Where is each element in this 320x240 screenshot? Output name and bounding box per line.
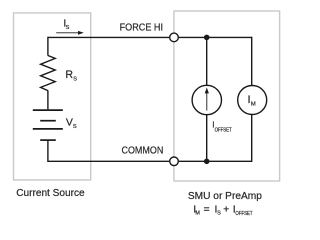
- wire: I_M branch top: [251, 37, 253, 86]
- battery V_S plate 1 (long): [33, 109, 63, 111]
- svg-text:S: S: [217, 211, 221, 217]
- svg-text:M: M: [195, 210, 200, 216]
- svg-text:OFFSET: OFFSET: [235, 211, 253, 217]
- battery V_S plate 3 (long): [33, 128, 63, 130]
- svg-text:S: S: [73, 124, 77, 130]
- wire: I_OFFSET branch bottom: [206, 115, 208, 162]
- SMU or PreAmp enclosure box: [174, 11, 280, 181]
- wire: COMMON bottom rail: [48, 160, 252, 162]
- current source I_OFFSET (circle with up arrow): [192, 85, 221, 114]
- svg-text:S: S: [66, 25, 70, 31]
- arrow I_S: [56, 32, 79, 34]
- current source enclosure box: [14, 13, 91, 180]
- svg-text:OFFSET: OFFSET: [215, 128, 233, 134]
- wire: resistor to battery: [47, 90, 49, 109]
- svg-text:COMMON: COMMON: [122, 145, 164, 156]
- wire: I_M branch bottom: [251, 114, 253, 162]
- svg-text:R: R: [65, 69, 73, 81]
- node COMMON (open circle): [170, 157, 179, 166]
- svg-text:Current Source: Current Source: [16, 188, 85, 199]
- wire: FORCE HI top rail: [48, 36, 252, 38]
- current meter I_M circle: [238, 86, 267, 115]
- svg-text:M: M: [251, 101, 256, 107]
- svg-text:V: V: [66, 117, 73, 129]
- junction dot top: [204, 35, 210, 41]
- wire: battery to bottom rail: [47, 141, 49, 163]
- svg-text:SMU or PreAmp: SMU or PreAmp: [188, 191, 262, 202]
- battery V_S plate 4 (short): [40, 139, 56, 141]
- wire: left vertical from top rail to resistor: [47, 37, 49, 56]
- junction dot bottom: [204, 159, 210, 165]
- svg-text:FORCE HI: FORCE HI: [120, 22, 163, 33]
- node FORCE HI (open circle): [170, 33, 179, 42]
- wire: I_OFFSET branch top: [206, 37, 208, 86]
- svg-text:S: S: [73, 77, 77, 83]
- resistor R_S zigzag: [41, 56, 56, 91]
- svg-text:=: =: [204, 204, 210, 216]
- battery V_S plate 2 (short): [40, 120, 56, 122]
- svg-text:+: +: [223, 204, 229, 216]
